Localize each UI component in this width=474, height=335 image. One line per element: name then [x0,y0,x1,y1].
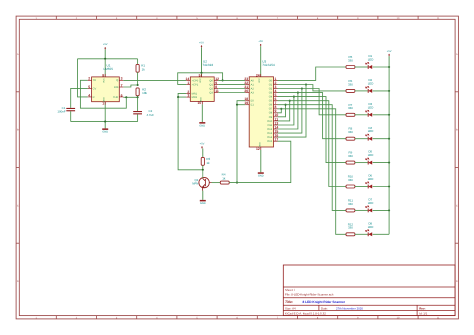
svg-text:Q: Q [116,79,118,82]
wire R10 to D6 [355,186,368,188]
junction O6/O9 node [284,104,286,106]
svg-text:1k: 1k [142,67,146,71]
svg-text:VCC: VCC [103,78,106,83]
wire O4 net to R9 [278,97,347,163]
resistor R8 [346,127,355,141]
LED D6 [366,174,374,189]
LED D8 [366,221,374,236]
svg-text:LED: LED [368,81,374,85]
svg-text:O4: O4 [269,96,273,99]
wire O2 net to R7 [278,89,347,115]
junction O1/O14 node [305,83,307,85]
svg-text:Date:: Date: [321,306,328,310]
wire THR pin 6 row [123,96,137,98]
wire R9 to D5 [355,162,368,164]
svg-text:LED: LED [368,177,374,181]
wire O15 to base line [229,141,291,182]
svg-text:330: 330 [348,130,353,134]
svg-text:O9: O9 [269,116,273,119]
junction LED rail node [388,162,390,164]
U1 pin names [93,78,119,102]
resistor R5 [346,55,355,69]
wire Q0 feedback to CP1 [178,73,223,85]
svg-text:O2: O2 [269,87,273,90]
svg-text:7: 7 [121,83,123,87]
svg-text:GND: GND [258,175,264,178]
resistor R12 [346,222,355,236]
resistor R9 [346,151,355,165]
resistor R3 [201,157,210,170]
svg-text:4.7uF: 4.7uF [147,113,155,117]
svg-text:O13: O13 [267,132,272,135]
wire O13 to O2 pair [278,89,302,134]
wire R5 to D1 [355,66,368,68]
wire D7 to +5V rail [373,209,390,211]
LED D2 [366,78,374,93]
svg-text:LED: LED [368,129,374,133]
svg-text:A2: A2 [251,87,255,90]
svg-text:GND: GND [200,97,203,102]
svg-text:C: C [17,204,19,207]
wire D3 to +5V rail [373,114,390,116]
svg-text:E1: E1 [251,104,255,107]
wire R11 to D7 [355,209,368,211]
junction U2 VCC node [200,72,202,74]
junction E node [236,104,238,106]
wire Q2 to A2 [218,88,245,90]
svg-text:VCC: VCC [258,78,261,83]
svg-text:O8: O8 [269,112,273,115]
wire Q3 to A3 [218,92,245,94]
transistor Q1 NPN [192,170,211,191]
svg-text:3: 3 [121,77,123,81]
resistor R6 [346,79,355,93]
svg-text:O7: O7 [269,108,273,111]
wire +5V to U1 reset pin 4 [78,59,88,97]
wire +5V rail above U1 [78,58,138,60]
LED D3 [366,102,374,117]
power +5V PWR05 (LED rail) [387,50,392,67]
svg-text:Q2: Q2 [209,87,213,90]
svg-text:8: 8 [102,73,104,77]
svg-text:1k: 1k [206,161,210,165]
wire E0 to E1 tie [237,101,245,105]
wire U1 OUT pin3 to U2 CP0 [123,79,186,81]
ground GND (Q1 emitter) [200,191,206,206]
wire O12 to O3 pair [278,93,298,129]
svg-text:O12: O12 [267,128,272,131]
svg-text:5: 5 [199,73,201,77]
wire O6 net to R11 [278,105,347,211]
resistor R2 [136,87,148,97]
wire D4 to +5V rail [373,138,390,140]
svg-text:330: 330 [348,154,353,158]
svg-text:330: 330 [348,226,353,230]
svg-text:GND: GND [102,131,108,134]
wire O7 net to R12 [278,109,347,235]
wire U1 VCC pin 8 [104,59,106,77]
svg-text:LED: LED [368,225,374,229]
op-amp timer U1 LM555 [88,63,124,104]
power +5V PWR02 (U2 supply) [199,41,204,72]
svg-text:6: 6 [121,93,123,97]
junction collector node [202,169,204,171]
svg-text:LED: LED [368,58,374,62]
junction base line / E tap [236,182,238,184]
svg-text:O11: O11 [267,124,272,127]
svg-text:O10: O10 [267,120,272,123]
ground GND (555) [102,122,108,134]
ground GND (U3) [258,150,264,178]
svg-text:Id: 1/1: Id: 1/1 [419,312,427,316]
svg-text:LED: LED [368,153,374,157]
wire E node down to Q1 base line [236,105,238,183]
svg-text:O14: O14 [267,136,272,139]
svg-text:O1: O1 [269,83,273,86]
svg-text:74LS154: 74LS154 [262,63,275,67]
svg-text:+5V: +5V [387,50,392,53]
svg-text:Sheet: /: Sheet: / [285,288,295,292]
junction O4/O11 node [293,96,295,98]
junction O2/O13 node [301,87,303,89]
svg-text:LED: LED [368,201,374,205]
wire D5 to +5V rail [373,162,390,164]
svg-text:O3: O3 [269,92,273,95]
junction O5/O10 node [289,100,291,102]
junction MR node [177,96,179,98]
resistor R7 [346,103,355,117]
svg-text:>CP1: >CP1 [192,83,199,86]
wire O14 to O1 pair [278,85,307,138]
svg-text:>CP0: >CP0 [192,79,199,82]
wire O1 net to R6 [278,85,347,91]
svg-text:2: 2 [88,77,90,81]
wire D8 to +5V rail [373,233,390,235]
svg-text:Size: A4: Size: A4 [285,306,296,310]
svg-text:Rev:: Rev: [419,306,425,310]
svg-text:DIS: DIS [114,86,119,89]
svg-text:A0: A0 [251,79,255,82]
ground GND (U2) [199,104,205,127]
svg-text:D: D [456,280,458,283]
svg-text:3: 3 [187,94,189,98]
svg-text:4: 4 [88,93,90,97]
LED D7 [366,198,374,213]
power +5V PWR03 (U3 supply) [258,40,263,77]
wire R7 to D3 [355,114,368,116]
wire MR node to Q1 collector [178,97,203,170]
svg-text:KiCad E.D.A. kicad 5.1.8-1:5.: KiCad E.D.A. kicad 5.1.8-1:5.32 [285,312,326,316]
wire TR pin 2 loop to THR [80,80,126,108]
svg-text:R: R [93,96,95,99]
svg-text:330: 330 [348,202,353,206]
junction Q0/A0 feedback tap [222,79,224,81]
junction LED rail node [388,90,390,92]
wire O5 net to R10 [278,101,347,187]
svg-text:Q0: Q0 [209,79,213,82]
wire Q1 to A1 [218,83,245,85]
U3 pin names [251,78,273,147]
resistor R10 [346,175,355,189]
wire O11 to O4 pair [278,97,294,125]
svg-text:D: D [17,280,19,283]
svg-text:Title:: Title: [285,300,293,304]
wire O3 net to R8 [278,93,347,139]
svg-text:5: 5 [88,85,90,89]
junction VCC node U1 [104,58,106,60]
wire R6 to D2 [355,90,368,92]
svg-text:MR1: MR1 [192,92,198,95]
svg-text:LM555: LM555 [104,67,114,71]
U1 pin numbers [88,73,122,105]
wire base to R4 [212,182,221,184]
wire O0 net to R5 [278,67,347,80]
svg-text:+5V: +5V [199,41,204,44]
svg-text:+5V: +5V [103,43,108,46]
wire R8 to D4 [355,138,368,140]
power +5V PWR04 (R3 pull-up) [200,142,205,157]
junction R1/R2/DIS node [137,84,139,86]
junction O3/O12 node [297,92,299,94]
capacitor C1 [57,106,75,122]
junction LED rail node [388,185,390,187]
svg-text:LED: LED [368,105,374,109]
svg-text:File: 8-LED-Knight-Rider-Scann: File: 8-LED-Knight-Rider-Scanner.sch [285,293,334,297]
counter U2 74LS93 [186,59,218,104]
svg-text:MR2: MR2 [192,96,198,99]
wire DIS pin 7 to R1/R2 [123,85,137,87]
svg-text:CV: CV [93,87,97,90]
svg-text:GND: GND [200,202,206,205]
U3 pin numbers [244,73,278,151]
svg-text:8 LED Knight Rider Scanner: 8 LED Knight Rider Scanner [303,300,346,304]
LED D5 [366,150,374,165]
svg-text:Q3: Q3 [209,91,213,94]
U2 pin names [192,78,214,102]
svg-text:O0: O0 [269,79,273,82]
capacitor C2 [133,97,154,121]
wire D1 to +5V rail [373,66,390,68]
svg-text:100nF: 100nF [57,110,65,114]
junction THR/TR node [125,96,127,98]
svg-text:GND: GND [258,142,261,147]
wire O8 to O7 pair [278,109,282,113]
svg-text:Q1: Q1 [209,83,213,86]
svg-text:20: 20 [244,89,248,93]
LED D4 [366,126,374,141]
svg-text:GND: GND [199,124,205,127]
svg-text:O5: O5 [269,100,273,103]
svg-text:330: 330 [348,58,353,62]
svg-text:O6: O6 [269,104,273,107]
junction R2/C2 node [137,96,139,98]
wire O9 to O6 pair [278,105,286,117]
svg-text:74LS93: 74LS93 [202,63,213,67]
wire CV pin 5 to C1 [71,88,88,108]
wire ground bus of 555 [71,102,138,122]
svg-text:C: C [456,204,458,207]
svg-text:24: 24 [256,73,260,77]
resistor R4 [220,173,229,185]
wire MR1 to MR2 tie [178,93,186,97]
decoder U3 74LS154 [245,59,277,150]
junction LED rail node [388,66,390,68]
svg-text:A3: A3 [251,92,255,95]
wire U2 VCC pin 5 [201,73,203,77]
resistor R1 [136,59,145,85]
power +5V PWR01 (555 supply) [103,43,108,59]
svg-text:330: 330 [348,82,353,86]
junction LED rail node [388,209,390,211]
svg-text:GND: GND [103,97,106,102]
svg-text:+5V: +5V [258,40,263,43]
wire Q0 to A0 [218,79,245,81]
svg-text:O15: O15 [267,140,272,143]
svg-text:27th November 2020: 27th November 2020 [336,306,363,310]
svg-text:E0: E0 [251,100,255,103]
junction O7/O8 node [280,108,282,110]
svg-text:330: 330 [348,178,353,182]
svg-text:THR: THR [113,96,118,99]
junction ground node 555 [104,121,106,123]
svg-text:A1: A1 [251,83,255,86]
wire D6 to +5V rail [373,186,390,188]
svg-text:10k: 10k [142,91,147,95]
resistor R11 [346,198,355,212]
wire D2 to +5V rail [373,90,390,92]
svg-text:1k: 1k [222,176,226,180]
svg-text:TR: TR [93,79,97,82]
wire R12 to D8 [355,233,368,235]
wire LED +5V rail [388,67,390,234]
U2 pin numbers [186,73,220,105]
svg-text:+5V: +5V [200,142,205,145]
junction LED rail node [388,114,390,116]
svg-text:NPN: NPN [192,182,198,186]
junction LED rail node [388,138,390,140]
svg-text:330: 330 [348,106,353,110]
svg-text:1: 1 [187,81,189,85]
wire O10 to O5 pair [278,101,290,121]
LED D1 [366,54,374,69]
svg-text:VCC: VCC [199,78,202,83]
